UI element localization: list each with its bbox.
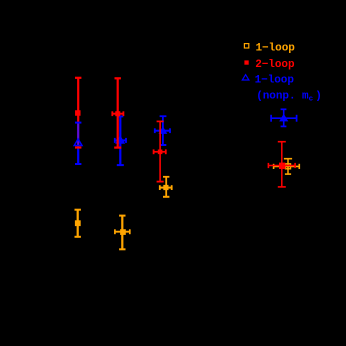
data point G1: red square marker: [75, 110, 81, 116]
data point G3: orange square marker: [163, 185, 168, 190]
svg-text:1−loop: 1−loop: [255, 75, 295, 87]
data point R3: 1-loop orange error bar (right): [274, 159, 300, 174]
data point G1: 1-loop nonp blue error bar: [75, 123, 81, 164]
data point O2: 1-loop orange error bar: [115, 216, 130, 250]
wire overlap segment G1 (red+blue blend): [77, 123, 79, 148]
data point G1: blue open triangle marker: [74, 139, 82, 146]
data point G1: 2-loop red error bar: [75, 78, 81, 123]
data point G2: blue triangle marker: [116, 137, 124, 144]
data point R2: 2-loop red error bar (right): [268, 142, 295, 187]
legend marker: 2-loop red filled square: [244, 60, 248, 64]
data point G3: 1-loop orange error bar: [160, 177, 172, 197]
data point O2: orange square marker: [120, 229, 126, 235]
data point G1: red bottom cap: [75, 146, 81, 148]
data point R1: 1-loop nonp blue error bar (right): [271, 109, 297, 126]
legend marker: 1-loop nonp blue open triangle: [242, 75, 249, 80]
data point G3: 1-loop nonp blue error bar: [155, 116, 170, 145]
data point R1: blue triangle marker: [280, 115, 287, 121]
data point G3: blue triangle marker: [160, 128, 166, 134]
data point R3: orange open square marker: [286, 164, 291, 169]
data point O1: orange square marker: [75, 220, 81, 226]
data point G3: red marker: [158, 150, 163, 155]
svg-text:2−loop: 2−loop: [255, 59, 295, 71]
svg-text:1−loop: 1−loop: [256, 43, 296, 55]
data point G3: 2-loop red error bar: [154, 121, 166, 181]
data point O1: 1-loop orange error bar: [75, 210, 81, 237]
data point G2: red square marker: [115, 111, 120, 116]
data point R2: red square marker: [279, 163, 285, 169]
data point G2: 1-loop nonp blue error bar: [115, 116, 126, 165]
data point G2: 2-loop red error bar: [112, 78, 123, 147]
legend marker: 1-loop orange open square: [244, 44, 248, 48]
